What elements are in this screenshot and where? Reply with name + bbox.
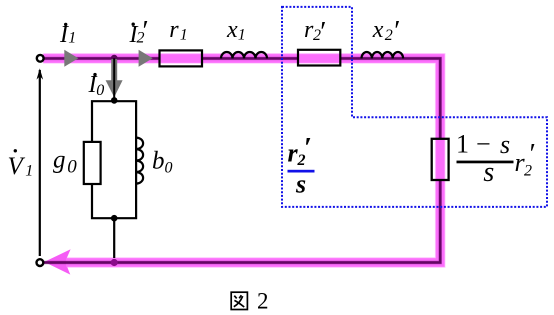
wire b0 coil axis	[135, 137, 137, 184]
svg-text:′: ′	[304, 132, 312, 164]
current I2' arrow (gray)	[139, 50, 153, 67]
terminal bottom-left	[37, 259, 44, 266]
inductor x2'	[362, 52, 404, 58]
blue dotted region boundary	[282, 7, 547, 207]
caption figure 2 (zu)	[231, 292, 247, 309]
svg-text:x: x	[372, 17, 384, 43]
wire dark core segments (highlighted black wire)	[44, 58, 441, 262]
inductor x1	[221, 52, 267, 58]
resistor r1	[160, 50, 203, 66]
node: junction dot top	[111, 55, 118, 62]
svg-text:s: s	[295, 170, 306, 199]
wire junction to magnetizing branch	[113, 58, 115, 100]
terminal top-left	[37, 55, 44, 62]
wire (soft halo underlay for all highlighted segments)	[44, 58, 441, 262]
V1 arrowhead (up)	[37, 68, 44, 79]
label r2'/s blue fraction (rotor branch)	[288, 132, 315, 199]
svg-text:2: 2	[257, 289, 269, 314]
inductor b0 (4 right-bulging arcs)	[136, 138, 143, 184]
svg-text:0: 0	[165, 160, 173, 177]
current I1 arrow (gray)	[64, 50, 78, 67]
svg-text:x: x	[226, 17, 238, 43]
resistor g0	[84, 142, 101, 184]
wire: terminal to r1	[44, 57, 160, 59]
svg-text:1: 1	[25, 163, 33, 180]
svg-text:1: 1	[68, 29, 76, 46]
svg-text:′: ′	[318, 16, 325, 48]
svg-text:′: ′	[141, 15, 148, 47]
svg-text:g: g	[53, 146, 66, 173]
wire: right resistor to bottom corner, bottom rail	[44, 180, 441, 263]
svg-text:0: 0	[67, 157, 77, 178]
svg-text:s: s	[483, 157, 494, 188]
svg-text:1: 1	[180, 27, 188, 44]
svg-text:′: ′	[528, 138, 535, 170]
wire: r2' through x2' coil to corner, down to right resistor	[340, 58, 440, 139]
svg-text:1: 1	[238, 27, 246, 44]
wire: r1 through x1 coil to r2'	[202, 57, 298, 59]
node: branch top dot	[111, 97, 118, 104]
current I0 arrow (gray, down)	[111, 59, 117, 82]
svg-text:s: s	[500, 130, 510, 159]
bottom rail current arrowhead (magenta, points left)	[44, 249, 70, 274]
svg-text:V: V	[8, 153, 26, 180]
V1 voltage arrow line	[39, 70, 41, 256]
svg-text:b: b	[152, 147, 165, 174]
wire branch bottom to bottom rail	[113, 218, 115, 258]
node: junction dot bottom rail	[111, 259, 118, 266]
resistor r2'	[298, 50, 340, 66]
svg-text:0: 0	[96, 82, 104, 99]
magnetizing branch frame wires	[92, 101, 136, 142]
resistor (1-s)/s r2' (right vertical)	[432, 139, 449, 180]
node: branch bottom dot	[111, 215, 118, 222]
svg-text:−: −	[476, 130, 491, 159]
svg-text:′: ′	[392, 15, 399, 47]
svg-text:r: r	[169, 17, 179, 43]
svg-text:1: 1	[456, 130, 469, 159]
wire highlight band (magenta path, soft edges)	[43, 58, 440, 262]
